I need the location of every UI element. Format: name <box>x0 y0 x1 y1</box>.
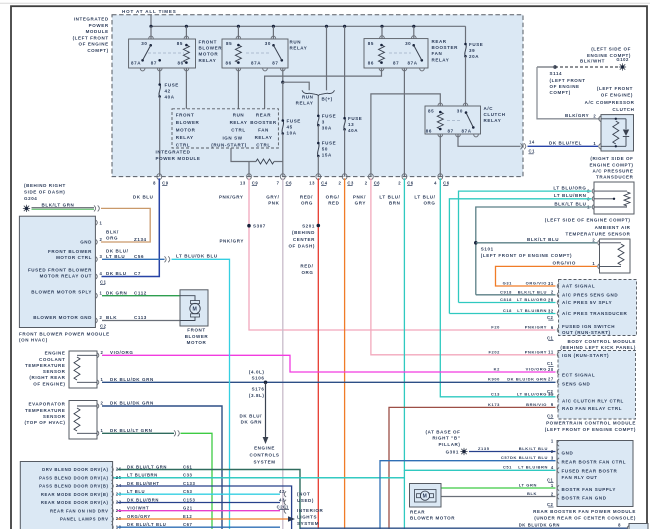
fuse F3 <box>317 96 319 116</box>
svg-text:ORG: ORG <box>106 236 118 241</box>
svg-text:86: 86 <box>426 129 432 134</box>
svg-text:RUN: RUN <box>290 40 302 45</box>
front blower motor M1 <box>180 290 208 326</box>
svg-text:GRY/: GRY/ <box>266 194 279 199</box>
svg-text:REAR BOSTR FAN CTRL: REAR BOSTR FAN CTRL <box>562 460 627 465</box>
svg-text:C61: C61 <box>183 464 193 469</box>
svg-text:1: 1 <box>593 141 596 146</box>
svg-text:C4: C4 <box>321 180 328 185</box>
svg-text:30: 30 <box>141 41 147 46</box>
svg-text:ORG/VIO: ORG/VIO <box>526 281 547 286</box>
svg-text:IGN (RUN-START): IGN (RUN-START) <box>562 353 609 358</box>
svg-text:DK BLU/DK GRN: DK BLU/DK GRN <box>110 377 154 382</box>
svg-text:45: 45 <box>287 125 293 130</box>
ground G102 <box>621 65 625 69</box>
A/C heater control pin 21 VIO/WHT <box>111 508 113 514</box>
svg-text:(RIGHT REAR: (RIGHT REAR <box>29 375 65 380</box>
engine coolant temperature sensor B3 <box>69 351 97 388</box>
svg-text:4: 4 <box>434 180 437 185</box>
svg-text:LT BLU/DK BLU: LT BLU/DK BLU <box>176 254 218 259</box>
svg-text:85: 85 <box>177 41 183 46</box>
svg-text:DK BLU/WHT: DK BLU/WHT <box>127 481 160 486</box>
relay K2 RUN RELAY <box>222 39 288 68</box>
svg-text:RELAY: RELAY <box>230 120 248 125</box>
svg-text:PNK/GRY: PNK/GRY <box>219 238 244 243</box>
svg-text:A/C PRES TRANSDUCER: A/C PRES TRANSDUCER <box>562 311 628 316</box>
svg-text:SENSOR: SENSOR <box>43 414 66 419</box>
svg-text:7: 7 <box>277 180 280 185</box>
svg-text:REAR FAN ON IND DRV: REAR FAN ON IND DRV <box>50 508 109 513</box>
svg-text:POWERTRAIN CONTROL MODULE: POWERTRAIN CONTROL MODULE <box>546 421 636 426</box>
RBFPM pin 1 BOSTR FAN SUPPLY <box>557 485 559 491</box>
svg-text:85: 85 <box>428 109 434 114</box>
svg-text:(LEFT SIDE OF: (LEFT SIDE OF <box>591 47 631 52</box>
svg-text:(LEFT FRONT: (LEFT FRONT <box>597 86 633 91</box>
svg-text:MOTOR: MOTOR <box>176 128 196 133</box>
svg-text:CTRL: CTRL <box>231 128 245 133</box>
svg-text:87A: 87A <box>251 61 261 66</box>
svg-text:ORG/GRY: ORG/GRY <box>127 514 151 519</box>
relay K1 FRONT BLOWER MOTOR RELAY <box>129 39 196 68</box>
svg-text:POWER: POWER <box>89 23 109 28</box>
svg-text:BLK/: BLK/ <box>106 229 119 234</box>
svg-text:BLOWER: BLOWER <box>176 120 200 125</box>
svg-text:COMPT): COMPT) <box>550 90 571 95</box>
svg-text:COOLANT: COOLANT <box>39 357 65 362</box>
svg-text:RELAY: RELAY <box>432 57 450 62</box>
svg-text:VIO/WHT: VIO/WHT <box>127 506 149 511</box>
wire DK BLU/DK GRN EVAP down <box>102 406 222 529</box>
svg-text:1: 1 <box>100 290 103 295</box>
A/C compressor clutch U3 <box>601 115 634 151</box>
svg-text:ORG/VIO: ORG/VIO <box>553 261 576 266</box>
svg-text:S114: S114 <box>550 71 563 76</box>
page frame <box>0 2 650 4</box>
svg-text:RUN: RUN <box>302 94 314 99</box>
svg-text:REAR: REAR <box>256 112 271 117</box>
svg-text:C1: C1 <box>100 279 107 284</box>
svg-text:1: 1 <box>592 261 595 266</box>
svg-text:CENTER: CENTER <box>293 237 315 242</box>
diode inside clutch <box>625 119 627 129</box>
svg-text:DK BLU/: DK BLU/ <box>240 413 263 418</box>
svg-text:ORG: ORG <box>423 200 435 205</box>
PCM pin 11 PNK/GRY F202 <box>557 352 559 358</box>
svg-text:G102: G102 <box>616 57 629 62</box>
Body Control Module box <box>559 280 637 336</box>
svg-text:ENGINE: ENGINE <box>254 446 275 451</box>
svg-text:G31: G31 <box>503 281 513 286</box>
svg-text:DK GRN: DK GRN <box>106 290 127 295</box>
svg-text:39: 39 <box>469 48 475 53</box>
fuse F39 <box>465 26 467 44</box>
svg-text:8: 8 <box>618 523 621 528</box>
svg-text:INTEGRATED: INTEGRATED <box>156 149 191 154</box>
RBFPM pin 2 GND <box>557 449 559 455</box>
svg-text:BOSTR FAN SUPPLY: BOSTR FAN SUPPLY <box>562 487 616 492</box>
svg-text:31: 31 <box>548 281 554 286</box>
wire BRN/VIO <box>389 407 556 529</box>
wire 23 LT BLU not used <box>118 493 281 495</box>
svg-text:DK BLU: DK BLU <box>133 194 154 199</box>
svg-text:2: 2 <box>365 180 368 185</box>
svg-text:32: 32 <box>548 308 554 313</box>
svg-text:SENS GND: SENS GND <box>562 381 590 386</box>
svg-text:Z134: Z134 <box>134 237 147 242</box>
svg-text:(LEFT FRONT: (LEFT FRONT <box>73 35 109 40</box>
svg-text:PANEL LAMPS DRV: PANEL LAMPS DRV <box>60 517 109 522</box>
IPM connector 7 C6 <box>280 174 285 177</box>
BCM pin 31 ORG/VIO <box>557 283 559 289</box>
svg-text:VIO/ORG: VIO/ORG <box>526 367 547 372</box>
svg-text:COMPT): COMPT) <box>87 48 108 53</box>
BCM pin 2 BLK/LT BLU <box>557 292 559 298</box>
svg-text:C1: C1 <box>547 335 554 340</box>
FBPM pin C2-1 BLOWER MOTOR SPLY <box>95 293 97 299</box>
svg-text:REAR MODE DOOR DRV(B): REAR MODE DOOR DRV(B) <box>41 492 109 497</box>
FBPM pin 3 FRONT BLOWER MOTOR CTRL <box>95 257 97 263</box>
svg-text:FRONT: FRONT <box>187 328 206 333</box>
svg-text:13: 13 <box>240 180 246 185</box>
svg-text:C33: C33 <box>183 473 193 478</box>
svg-text:LT BLU/BRN: LT BLU/BRN <box>518 465 548 470</box>
svg-text:FUSE: FUSE <box>322 114 336 119</box>
PCM pin 6 BRN/VIO K173 <box>557 405 559 411</box>
svg-text:K173: K173 <box>488 402 500 407</box>
svg-text:C9: C9 <box>162 180 169 185</box>
svg-text:ORG: ORG <box>301 270 313 275</box>
splice S201 <box>317 224 321 228</box>
svg-text:BLOWER: BLOWER <box>185 334 209 339</box>
RBFPM pin 3 REAR BOSTR FAN CTRL <box>557 458 559 464</box>
svg-text:C6: C6 <box>407 180 414 185</box>
svg-text:C18: C18 <box>503 308 512 313</box>
svg-text:F202: F202 <box>488 349 500 354</box>
Rear Booster Fan Power Module box <box>557 441 633 507</box>
svg-text:14: 14 <box>529 139 535 144</box>
svg-text:REAR MODE DOOR DRV(A): REAR MODE DOOR DRV(A) <box>41 500 109 505</box>
svg-text:BLK/LT GRN: BLK/LT GRN <box>42 202 75 207</box>
svg-text:OF ENGINE): OF ENGINE) <box>33 381 65 386</box>
svg-text:PILLAR): PILLAR) <box>439 442 461 447</box>
RBFPM pin 1 stub <box>557 441 559 447</box>
svg-text:MOTOR CTRL: MOTOR CTRL <box>56 255 92 260</box>
svg-text:ECT SIGNAL: ECT SIGNAL <box>562 373 595 378</box>
svg-text:1: 1 <box>100 220 103 225</box>
svg-text:A/C CLUTCH RLY CTRL: A/C CLUTCH RLY CTRL <box>562 399 624 404</box>
fuse F45 <box>282 82 284 120</box>
wire 21 VIO/WHT <box>118 510 281 512</box>
svg-text:C818: C818 <box>500 297 512 302</box>
IPM connector 13 C4 <box>316 174 321 177</box>
svg-text:TEMPERATURE SENSOR: TEMPERATURE SENSOR <box>566 231 631 236</box>
svg-text:INTEGRATED: INTEGRATED <box>74 17 109 22</box>
svg-text:RELAY: RELAY <box>484 118 502 123</box>
wire DK BLU/DK GRN to engine controls <box>265 382 267 437</box>
svg-text:(RUN-START): (RUN-START) <box>211 143 247 148</box>
A/C heater control pin 26 DK BLU/LT GRN <box>111 467 113 473</box>
svg-text:TEMPERATURE: TEMPERATURE <box>25 363 66 368</box>
svg-text:(NOT: (NOT <box>297 491 310 496</box>
wire 20 ORG/GRY to interior lights <box>118 518 289 520</box>
svg-text:S101: S101 <box>481 246 494 251</box>
svg-text:OF ENGINE: OF ENGINE <box>79 42 109 47</box>
svg-text:FUSE: FUSE <box>165 83 179 88</box>
wire 26 DK BLU/LT GRN <box>118 470 301 529</box>
svg-text:DK BLU/LT BLU: DK BLU/LT BLU <box>127 522 166 527</box>
svg-text:MOTOR: MOTOR <box>199 52 219 57</box>
wire 24 DK BLU/WHT <box>118 486 292 529</box>
svg-text:BLK/LT BLU: BLK/LT BLU <box>527 237 559 242</box>
svg-text:20A: 20A <box>469 54 479 59</box>
svg-text:13: 13 <box>309 180 315 185</box>
svg-text:87: 87 <box>151 61 157 66</box>
A/C heater control pin 25 LT BLU/BRN <box>111 475 113 481</box>
wire C57 DK BLU/LT BLU <box>380 461 556 529</box>
svg-text:2: 2 <box>100 237 103 242</box>
svg-text:LT BLU/BRN: LT BLU/BRN <box>554 193 587 198</box>
svg-text:EVAPORATOR: EVAPORATOR <box>28 402 65 407</box>
svg-text:87A: 87A <box>408 61 418 66</box>
A/C heater control pin 19 DK BLU/LT BLU <box>111 524 113 529</box>
RBFPM pin 4 FUSED REAR BOSTR FAN RLY OUT <box>557 468 559 474</box>
bottom right module stub <box>629 524 648 529</box>
svg-text:M: M <box>423 494 428 500</box>
svg-text:G21: G21 <box>183 506 193 511</box>
svg-text:87: 87 <box>448 129 454 134</box>
svg-text:DK BLU/BRN: DK BLU/BRN <box>127 497 159 502</box>
svg-text:87: 87 <box>393 61 399 66</box>
svg-text:BLK/LT BLU: BLK/LT BLU <box>518 289 547 294</box>
svg-text:C67: C67 <box>183 522 193 527</box>
svg-text:DK BLU/DK GRN: DK BLU/DK GRN <box>519 522 560 527</box>
IPM connector 2 C6 <box>369 174 374 177</box>
A/C heater control pin 22 DK BLU/BRN <box>111 500 113 506</box>
svg-text:OUT (RUN-START): OUT (RUN-START) <box>562 330 611 335</box>
svg-text:ENGINE COMPT): ENGINE COMPT) <box>589 162 633 167</box>
svg-text:C6: C6 <box>443 180 450 185</box>
brace merge RUN RELAY / B(+) <box>326 26 328 90</box>
wire hot bus <box>150 15 152 27</box>
svg-text:ORG: ORG <box>301 200 313 205</box>
svg-text:A/C PRES 5V SPLY: A/C PRES 5V SPLY <box>562 300 612 305</box>
A/C heater control box <box>20 462 112 529</box>
svg-text:42: 42 <box>165 89 171 94</box>
svg-text:3: 3 <box>100 254 103 259</box>
svg-text:30: 30 <box>265 41 271 46</box>
svg-text:2: 2 <box>338 180 341 185</box>
wire BLK/LT BLU to AAT sensor <box>476 242 597 244</box>
svg-text:C153: C153 <box>183 497 195 502</box>
svg-text:FRONT: FRONT <box>199 40 218 45</box>
svg-text:POWER MODULE: POWER MODULE <box>156 156 201 161</box>
svg-text:BLK: BLK <box>106 315 117 320</box>
svg-text:C1: C1 <box>547 477 554 482</box>
svg-text:INTERIOR: INTERIOR <box>297 508 323 513</box>
svg-text:C9: C9 <box>252 180 259 185</box>
svg-text:ENGINE: ENGINE <box>45 351 66 356</box>
IPM connector 2 C6 <box>402 174 407 177</box>
svg-text:LT BLU: LT BLU <box>127 489 145 494</box>
svg-text:(UNDER REAR OF CENTER CONSOLE): (UNDER REAR OF CENTER CONSOLE) <box>534 515 636 520</box>
svg-text:S176: S176 <box>252 387 265 392</box>
svg-text:FAN: FAN <box>258 128 269 133</box>
fuse F50 <box>317 125 319 143</box>
svg-text:DK BLU/: DK BLU/ <box>106 249 129 254</box>
svg-text:10A: 10A <box>287 131 297 136</box>
A/C heater control pin 24 DK BLU/WHT <box>111 483 113 489</box>
svg-text:85: 85 <box>368 41 374 46</box>
svg-text:FUSE: FUSE <box>287 119 301 124</box>
svg-text:OF ENGINE: OF ENGINE <box>550 84 580 89</box>
svg-text:FUSE: FUSE <box>348 116 362 121</box>
svg-text:ORG/: ORG/ <box>326 194 340 199</box>
svg-text:BLK/GRY: BLK/GRY <box>565 113 589 118</box>
svg-text:87: 87 <box>272 61 278 66</box>
svg-text:OF ENGINE): OF ENGINE) <box>601 92 633 97</box>
svg-text:FUSED REAR BOSTR: FUSED REAR BOSTR <box>562 469 618 474</box>
svg-text:TRANSDUCER: TRANSDUCER <box>596 175 634 180</box>
svg-text:C3: C3 <box>547 413 554 418</box>
svg-text:RED: RED <box>328 200 339 205</box>
svg-text:BOOSTER: BOOSTER <box>250 120 277 125</box>
svg-text:PNK/GRY: PNK/GRY <box>525 349 547 354</box>
svg-text:(LEFT FRONT: (LEFT FRONT <box>550 78 586 83</box>
svg-text:K900: K900 <box>488 376 500 381</box>
svg-text:LT BLU/ORG: LT BLU/ORG <box>517 391 547 396</box>
svg-text:FAN RLY OUT: FAN RLY OUT <box>562 475 598 480</box>
svg-text:DK BLU/LT BLU: DK BLU/LT BLU <box>510 455 548 460</box>
svg-text:FRONT: FRONT <box>176 112 195 117</box>
svg-text:C2: C2 <box>547 315 554 320</box>
svg-text:87A: 87A <box>462 129 472 134</box>
svg-text:(LEFT FRONT OF ENGINE COMPT): (LEFT FRONT OF ENGINE COMPT) <box>481 253 572 258</box>
svg-text:A/C: A/C <box>484 106 494 111</box>
wire K4-86 output <box>439 134 441 177</box>
svg-text:(LEFT FRONT OF ENGINE COMPT): (LEFT FRONT OF ENGINE COMPT) <box>545 427 636 432</box>
svg-text:8: 8 <box>153 180 156 185</box>
svg-text:(RIGHT SIDE OF: (RIGHT SIDE OF <box>590 156 633 161</box>
svg-text:CLUTCH: CLUTCH <box>484 112 506 117</box>
wire VIO/ORG ECT to PCM <box>102 355 556 372</box>
svg-text:PASS BLEND DOOR DRV(A): PASS BLEND DOOR DRV(A) <box>39 475 108 480</box>
svg-text:A/C COMPRESSOR: A/C COMPRESSOR <box>585 100 635 105</box>
svg-text:OF DASH): OF DASH) <box>288 243 315 248</box>
svg-text:GND: GND <box>80 240 92 245</box>
svg-text:BLK: BLK <box>527 491 537 496</box>
wire DK BLU/LT GRN EVAP to connector <box>102 432 174 434</box>
svg-text:86: 86 <box>226 61 232 66</box>
svg-text:C57: C57 <box>501 455 510 460</box>
svg-text:MOTOR: MOTOR <box>187 340 207 345</box>
svg-text:RELAY: RELAY <box>176 135 194 140</box>
wire K2 coil to ctrl <box>237 68 239 109</box>
svg-text:RAD FAN RELAY CTRL: RAD FAN RELAY CTRL <box>562 406 622 411</box>
svg-text:A/C PRES SENS GND: A/C PRES SENS GND <box>562 292 618 297</box>
IPM connector 14 C1 <box>521 143 523 149</box>
svg-text:27: 27 <box>548 377 554 382</box>
svg-text:BLOWER MOTOR GND: BLOWER MOTOR GND <box>33 315 92 320</box>
svg-text:REAR: REAR <box>432 39 447 44</box>
BCM pin 28 LT BLU/ORG <box>557 300 559 306</box>
svg-text:S106: S106 <box>252 376 265 381</box>
svg-text:6: 6 <box>551 325 554 330</box>
svg-text:86: 86 <box>368 61 374 66</box>
PCM pin 11 LT BLU/ORG C13 <box>557 394 559 400</box>
bus junction dots <box>149 25 152 28</box>
svg-text:BLK/WHT: BLK/WHT <box>580 59 605 64</box>
svg-text:F20: F20 <box>491 325 500 330</box>
IPM relay control dashed box <box>172 109 278 148</box>
svg-text:28: 28 <box>548 297 554 302</box>
A/C heater control pin 20 ORG/GRY <box>111 516 113 522</box>
BCM pin 6 PNK/GRY F20 <box>557 327 559 333</box>
wire BLK/WHT dashed to G102 <box>555 66 620 68</box>
svg-text:DK BLU/LT GRN: DK BLU/LT GRN <box>110 428 152 433</box>
svg-text:PASS BLEND DOOR DRV(B): PASS BLEND DOOR DRV(B) <box>39 484 108 489</box>
ignition switch run-start feed <box>231 148 256 162</box>
svg-text:C1: C1 <box>529 149 536 154</box>
wire Z134 BLK/ORG tan <box>101 208 150 242</box>
svg-text:(TOP OF HVAC): (TOP OF HVAC) <box>24 420 65 425</box>
svg-text:C6: C6 <box>286 180 293 185</box>
svg-text:FRONT BLOWER POWER MODULE: FRONT BLOWER POWER MODULE <box>19 331 110 336</box>
svg-text:DK BLU/LT GRN: DK BLU/LT GRN <box>127 464 167 469</box>
FBPM pin C2-2 BLOWER MOTOR GND <box>95 318 97 324</box>
svg-text:MODULE: MODULE <box>86 29 109 34</box>
svg-text:C1: C1 <box>547 361 554 366</box>
svg-text:2: 2 <box>593 113 596 118</box>
svg-text:SENSOR: SENSOR <box>43 369 66 374</box>
svg-text:G301: G301 <box>446 449 459 454</box>
svg-text:GND: GND <box>562 451 574 456</box>
svg-text:C7: C7 <box>134 271 141 276</box>
svg-text:C112: C112 <box>134 290 147 295</box>
wire 25 LT BLU/BRN row <box>118 477 405 479</box>
wire DK BLU/DK GRN bottom to pin 8 <box>300 527 628 529</box>
svg-text:2: 2 <box>592 237 595 242</box>
svg-text:C53: C53 <box>183 489 193 494</box>
svg-text:LIGHTS: LIGHTS <box>297 514 317 519</box>
svg-text:RELAY: RELAY <box>199 58 217 63</box>
svg-text:RELAY: RELAY <box>296 100 314 105</box>
svg-text:3: 3 <box>551 455 554 460</box>
svg-text:RELAY: RELAY <box>290 46 308 51</box>
svg-text:C3: C3 <box>347 180 354 185</box>
svg-text:2: 2 <box>398 180 401 185</box>
svg-text:AAT SIGNAL: AAT SIGNAL <box>562 284 595 289</box>
svg-text:GRY: GRY <box>355 200 366 205</box>
wire 22 DK BLU/BRN not used <box>118 502 281 504</box>
svg-text:2: 2 <box>551 492 554 497</box>
svg-text:CLUTCH: CLUTCH <box>612 107 634 112</box>
fuse F42 <box>159 68 161 85</box>
svg-text:E12: E12 <box>183 514 192 519</box>
svg-text:(ON HVAC): (ON HVAC) <box>19 338 48 343</box>
svg-text:87A: 87A <box>131 61 141 66</box>
svg-text:LT BLU/BRN: LT BLU/BRN <box>517 308 547 313</box>
svg-text:DK BLU/DK GRN: DK BLU/DK GRN <box>507 376 547 381</box>
PCM pin 27 DK BLU/DK GRN K900 <box>557 379 559 385</box>
wire K2-87 output <box>282 68 284 82</box>
splice S101 <box>474 241 478 245</box>
svg-text:C2: C2 <box>547 502 554 507</box>
svg-text:RUN: RUN <box>233 112 245 117</box>
svg-text:LT BLU/: LT BLU/ <box>379 194 400 199</box>
svg-text:20: 20 <box>548 367 554 372</box>
svg-text:PNK/GRY: PNK/GRY <box>525 325 547 330</box>
svg-text:40A: 40A <box>165 95 175 100</box>
